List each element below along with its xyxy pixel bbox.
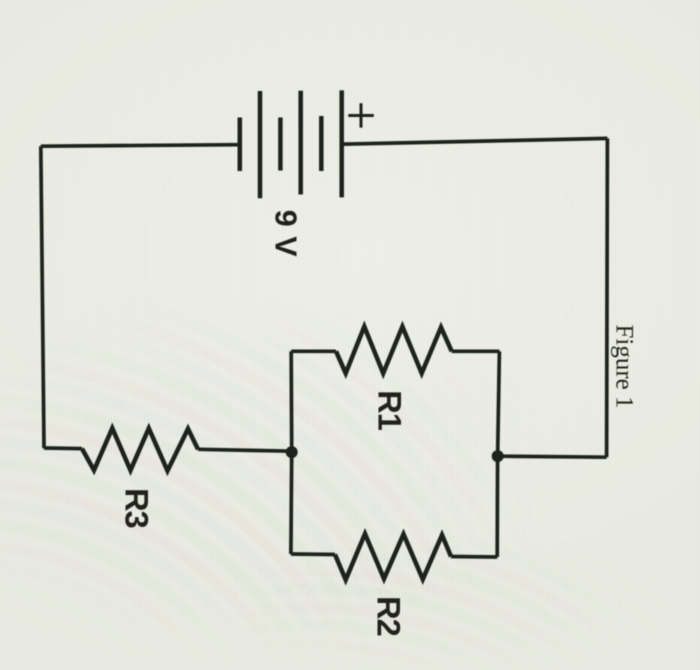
wire: top-right horizontal from battery positive to right corner	[342, 138, 608, 144]
svg-text:R2: R2	[370, 596, 406, 636]
battery B1 short plate 2	[278, 118, 283, 171]
wire: R2 right lead	[451, 555, 497, 559]
svg-text:R1: R1	[371, 390, 407, 430]
wire: parallel block left vertical branch	[289, 351, 294, 554]
battery B1 negative plate (short, leftmost)	[238, 118, 243, 172]
wire: R2 left lead	[291, 552, 335, 556]
svg-text:9 V: 9 V	[269, 210, 303, 257]
battery B1 long plate 1	[258, 91, 263, 198]
wire: right vertical side	[605, 138, 610, 457]
wire: R3 right lead to node A	[198, 449, 292, 451]
resistor R2 zigzag	[335, 534, 451, 580]
node B junction dot	[492, 450, 504, 462]
battery B1 short plate 3	[319, 116, 324, 171]
wire: parallel block right vertical branch	[497, 351, 499, 557]
svg-text:Figure 1: Figure 1	[610, 324, 637, 408]
polarity plus sign	[348, 103, 374, 127]
svg-text:R3: R3	[119, 488, 155, 528]
wire: R3 left lead from corner	[44, 446, 82, 450]
wire: node B to right side	[498, 456, 607, 457]
wire: R1 right lead	[452, 349, 500, 353]
wire: left vertical side	[41, 146, 44, 448]
resistor R3 zigzag	[82, 428, 198, 471]
wire: R1 left lead	[291, 349, 336, 353]
node A junction dot	[286, 446, 298, 458]
battery B1 positive plate (long, rightmost)	[339, 90, 344, 197]
wire: top-left horizontal from corner to battery negative terminal	[41, 145, 240, 147]
resistor R1 zigzag	[336, 327, 452, 374]
battery B1 long plate 2	[298, 91, 303, 195]
